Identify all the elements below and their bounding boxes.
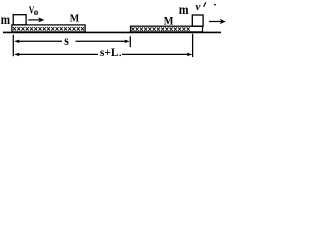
svg-text:o: o [34,7,39,17]
dot after v' [214,4,216,6]
arrow V0 [28,19,40,21]
plank M left (outline) [12,25,85,32]
dimension line s [16,40,63,42]
block m left [13,15,26,25]
block m right [192,15,203,26]
extension line left [12,35,14,56]
hatch row left plank [13,27,84,31]
svg-text:s: s [64,33,69,48]
hatch row right plank [131,27,189,31]
dimension line s+L [16,53,99,55]
extension line right [192,34,194,57]
extension line middle [129,36,131,47]
arrow v' [209,21,222,23]
svg-text:m: m [1,12,11,27]
ground line [3,31,221,33]
svg-text:M: M [70,13,80,25]
plank M right (outline) [131,26,203,32]
svg-text:M: M [164,15,174,27]
svg-text:v: v [196,1,201,13]
svg-text:s+L: s+L [100,47,119,59]
svg-text:m: m [179,3,189,18]
period after s+L [119,55,121,57]
